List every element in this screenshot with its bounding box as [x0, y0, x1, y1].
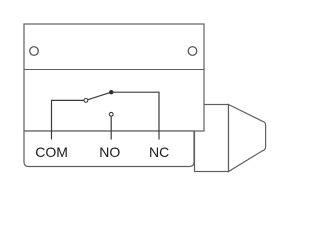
- wire: NC run and lead: [111, 92, 159, 139]
- terminal block (lower body): [24, 131, 194, 167]
- mounting hole right: [188, 47, 197, 56]
- mounting strip divider: [24, 69, 204, 71]
- plunger base rectangle: [195, 105, 229, 172]
- svg-text:NC: NC: [149, 144, 169, 160]
- NO lead wire: [110, 116, 112, 139]
- mounting hole left: [30, 47, 39, 56]
- svg-text:COM: COM: [35, 144, 68, 160]
- roller/cone actuator: [229, 105, 266, 172]
- wire: COM lead and run to contact: [52, 100, 84, 139]
- switch body (upper): [24, 24, 204, 131]
- NO contact (open circle): [109, 112, 113, 116]
- switch blade: [88, 93, 110, 100]
- svg-text:NO: NO: [99, 144, 120, 160]
- COM pivot contact (open circle): [84, 99, 88, 103]
- junction dot at NC contact: [109, 90, 113, 94]
